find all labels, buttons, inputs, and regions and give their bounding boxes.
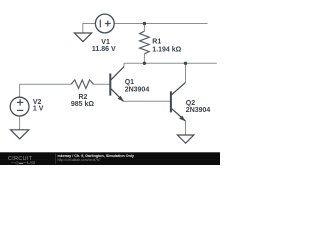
svg-text:1 V: 1 V: [33, 105, 44, 112]
svg-text:Q1: Q1: [125, 79, 134, 86]
svg-text:R2: R2: [79, 94, 88, 101]
svg-text:http://circuitlab.com/cnxt7b7: http://circuitlab.com/cnxt7b7: [58, 158, 101, 162]
svg-text:V1: V1: [101, 39, 110, 46]
svg-text:985 kΩ: 985 kΩ: [71, 101, 95, 108]
svg-text:11.86 V: 11.86 V: [92, 46, 116, 53]
svg-text:1.194 kΩ: 1.194 kΩ: [152, 46, 181, 53]
svg-text:2N3904: 2N3904: [186, 107, 211, 114]
svg-text:2N3904: 2N3904: [125, 86, 150, 93]
svg-text:Q2: Q2: [186, 100, 195, 107]
svg-text:R1: R1: [152, 38, 161, 45]
svg-text:—◎▬—LAB: —◎▬—LAB: [11, 160, 35, 165]
